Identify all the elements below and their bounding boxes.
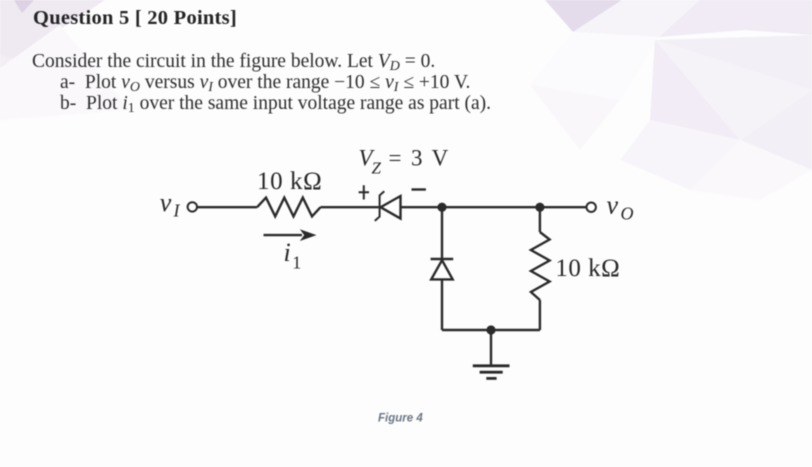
svg-text:10 kΩ: 10 kΩ bbox=[257, 168, 322, 195]
svg-text:1: 1 bbox=[292, 253, 301, 273]
svg-text:Z: Z bbox=[372, 159, 382, 178]
svg-text:I: I bbox=[173, 201, 181, 221]
svg-text:Figure 4: Figure 4 bbox=[378, 413, 423, 425]
svg-text:v: v bbox=[607, 191, 619, 220]
svg-text:v: v bbox=[160, 188, 172, 217]
svg-text:= 3 V: = 3 V bbox=[389, 146, 451, 171]
svg-text:i: i bbox=[284, 238, 291, 267]
svg-text:O: O bbox=[621, 204, 634, 224]
svg-text:10 kΩ: 10 kΩ bbox=[555, 255, 620, 282]
